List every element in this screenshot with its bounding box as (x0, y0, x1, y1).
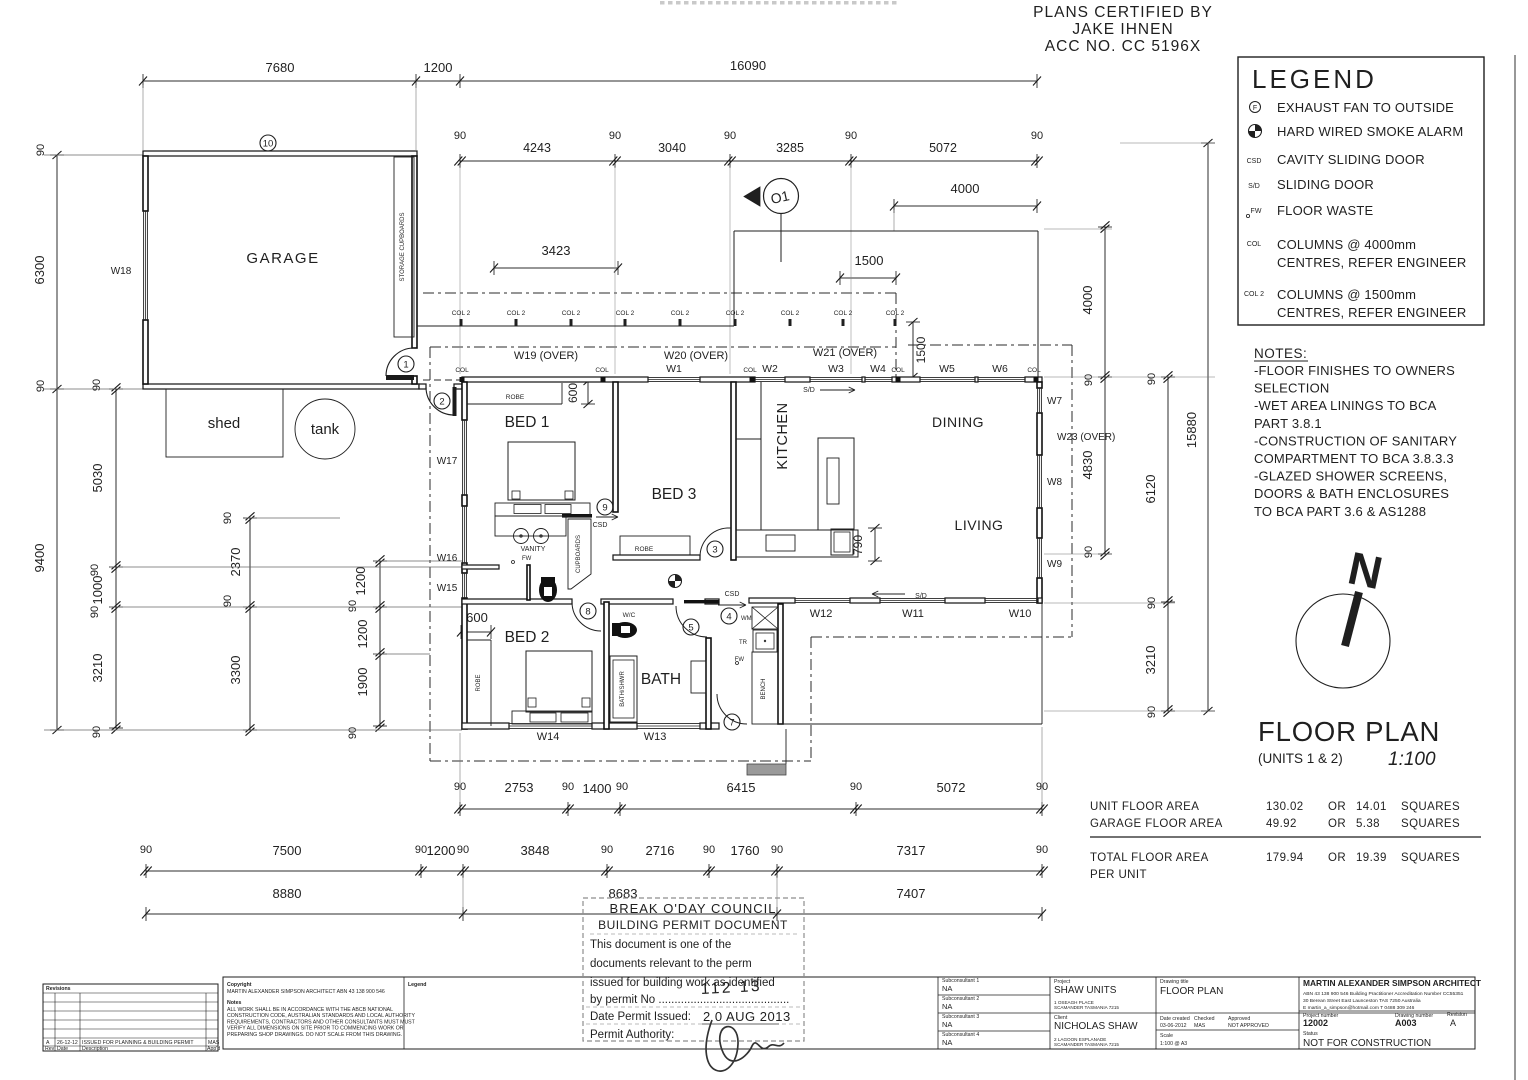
svg-text:W4: W4 (870, 363, 886, 375)
svg-text:7680: 7680 (266, 60, 295, 75)
svg-text:5: 5 (688, 622, 693, 633)
svg-text:CAVITY SLIDING DOOR: CAVITY SLIDING DOOR (1277, 152, 1425, 167)
svg-text:tank: tank (311, 421, 340, 438)
svg-text:OR: OR (1328, 852, 1346, 864)
svg-text:ROBE: ROBE (506, 394, 525, 401)
svg-text:130.02: 130.02 (1266, 801, 1304, 813)
svg-text:W10: W10 (1009, 608, 1032, 620)
svg-text:Checked: Checked (1194, 1016, 1215, 1022)
svg-text:MARTIN ALEXANDER SIMPSON ARCHI: MARTIN ALEXANDER SIMPSON ARCHITECT (1303, 978, 1482, 988)
svg-text:7500: 7500 (273, 843, 302, 858)
svg-text:W11: W11 (902, 608, 924, 620)
svg-text:FLOOR PLAN: FLOOR PLAN (1160, 986, 1223, 997)
svg-text:W23 (OVER): W23 (OVER) (1057, 432, 1115, 443)
svg-text:90: 90 (35, 380, 47, 392)
svg-text:3285: 3285 (776, 141, 804, 155)
svg-text:CSD: CSD (593, 522, 608, 529)
svg-text:COL 2: COL 2 (886, 310, 905, 317)
svg-text:-CONSTRUCTION OF SANITARY: -CONSTRUCTION OF SANITARY (1254, 433, 1457, 448)
svg-text:W14: W14 (537, 731, 560, 743)
svg-text:COL 2: COL 2 (562, 310, 581, 317)
svg-text:REQUIREMENTS, CONTRACTORS AND: REQUIREMENTS, CONTRACTORS AND OTHER CONS… (227, 1019, 416, 1025)
svg-text:COL 2: COL 2 (834, 310, 853, 317)
svg-text:03-06-2012: 03-06-2012 (1160, 1023, 1187, 1029)
svg-text:12002: 12002 (1303, 1018, 1328, 1028)
svg-text:CENTRES, REFER ENGINEER: CENTRES, REFER ENGINEER (1277, 255, 1467, 270)
svg-text:8683: 8683 (609, 886, 638, 901)
svg-text:90: 90 (1031, 130, 1043, 142)
svg-text:documents relevant to the perm: documents relevant to the perm (590, 958, 752, 970)
svg-text:NA: NA (942, 1002, 952, 1011)
svg-text:90: 90 (222, 512, 234, 524)
svg-text:49.92: 49.92 (1266, 818, 1297, 830)
svg-text:90: 90 (562, 781, 574, 793)
svg-text:90: 90 (1083, 374, 1095, 386)
svg-text:W15: W15 (437, 583, 458, 594)
svg-text:PREPARING SHOP DRAWINGS. DO NO: PREPARING SHOP DRAWINGS. DO NOT SCALE FR… (227, 1032, 402, 1038)
svg-text:3210: 3210 (90, 654, 105, 683)
svg-text:90: 90 (1146, 373, 1158, 385)
svg-text:5030: 5030 (90, 464, 105, 493)
svg-text:1200: 1200 (355, 620, 370, 649)
svg-text:Legend: Legend (408, 982, 426, 988)
svg-text:3: 3 (712, 544, 717, 555)
svg-text:Notes: Notes (227, 1000, 242, 1006)
svg-text:90: 90 (91, 726, 103, 738)
svg-text:DOORS & BATH ENCLOSURES: DOORS & BATH ENCLOSURES (1254, 486, 1449, 501)
svg-text:App'd: App'd (207, 1046, 220, 1052)
svg-text:GARAGE FLOOR AREA: GARAGE FLOOR AREA (1090, 818, 1223, 830)
svg-text:1200: 1200 (353, 567, 368, 596)
svg-text:2 0 AUG 2013: 2 0 AUG 2013 (703, 1009, 791, 1024)
svg-text:9400: 9400 (32, 544, 47, 573)
svg-text:FW: FW (522, 556, 532, 562)
svg-text:NA: NA (942, 1020, 952, 1029)
svg-text:6120: 6120 (1143, 475, 1158, 504)
svg-text:8880: 8880 (273, 886, 302, 901)
svg-text:NA: NA (942, 1038, 952, 1047)
svg-text:COL: COL (743, 367, 757, 374)
svg-text:90: 90 (616, 781, 628, 793)
svg-text:UNIT FLOOR AREA: UNIT FLOOR AREA (1090, 801, 1199, 813)
svg-text:W12: W12 (810, 608, 833, 620)
svg-text:BUILDING PERMIT DOCUMENT: BUILDING PERMIT DOCUMENT (598, 918, 788, 932)
svg-text:OR: OR (1328, 801, 1346, 813)
svg-text:LEGEND: LEGEND (1252, 64, 1377, 94)
svg-text:7317: 7317 (897, 843, 926, 858)
svg-text:COLUMNS @ 1500mm: COLUMNS @ 1500mm (1277, 287, 1416, 302)
svg-text:Approved: Approved (1228, 1016, 1250, 1022)
svg-text:W20 (OVER): W20 (OVER) (664, 350, 728, 362)
svg-text:7407: 7407 (897, 886, 926, 901)
svg-text:4000: 4000 (1080, 286, 1095, 315)
svg-text:3423: 3423 (542, 243, 571, 258)
svg-text:90: 90 (1146, 706, 1158, 718)
svg-text:9: 9 (602, 502, 607, 513)
svg-text:OR: OR (1328, 818, 1346, 830)
svg-text:1: 1 (403, 359, 408, 370)
svg-text:2753: 2753 (505, 780, 534, 795)
svg-text:BED 1: BED 1 (505, 414, 550, 431)
svg-text:112 13: 112 13 (700, 978, 762, 998)
svg-text:PLANS CERTIFIED BY: PLANS CERTIFIED BY (1033, 4, 1213, 21)
svg-text:VANITY: VANITY (521, 546, 546, 553)
svg-text:DINING: DINING (932, 414, 984, 430)
svg-text:4830: 4830 (1080, 451, 1095, 480)
svg-text:Date created: Date created (1160, 1016, 1190, 1022)
svg-text:W21 (OVER): W21 (OVER) (813, 347, 877, 359)
svg-text:W6: W6 (992, 363, 1008, 375)
svg-text:BATH: BATH (641, 671, 681, 688)
svg-text:90: 90 (222, 595, 234, 607)
svg-text:90: 90 (601, 844, 613, 856)
svg-text:90: 90 (609, 130, 621, 142)
svg-text:FLOOR WASTE: FLOOR WASTE (1277, 203, 1373, 218)
svg-text:NOTES:: NOTES: (1254, 346, 1307, 361)
svg-text:S/D: S/D (915, 593, 927, 600)
svg-text:COL: COL (595, 367, 609, 374)
svg-text:STORAGE CUPBOARDS: STORAGE CUPBOARDS (400, 213, 406, 282)
svg-text:CENTRES, REFER ENGINEER: CENTRES, REFER ENGINEER (1277, 305, 1467, 320)
svg-text:W16: W16 (437, 553, 458, 564)
svg-text:NA: NA (942, 984, 952, 993)
svg-text:1500: 1500 (914, 336, 928, 363)
svg-text:W19 (OVER): W19 (OVER) (514, 350, 578, 362)
svg-text:90: 90 (1036, 844, 1048, 856)
svg-text:COL: COL (891, 367, 905, 374)
svg-text:ROBE: ROBE (476, 674, 482, 691)
svg-text:90: 90 (771, 844, 783, 856)
svg-text:3040: 3040 (658, 141, 686, 155)
svg-text:90: 90 (703, 844, 715, 856)
svg-text:90: 90 (35, 144, 47, 156)
svg-text:COL: COL (1027, 367, 1041, 374)
svg-text:F: F (1253, 105, 1257, 112)
svg-text:2716: 2716 (646, 843, 675, 858)
svg-text:1000: 1000 (90, 576, 105, 605)
svg-text:CONSTRUCTION CODE, AUSTRALIAN: CONSTRUCTION CODE, AUSTRALIAN STANDARDS … (227, 1013, 415, 1019)
svg-text:14.01: 14.01 (1356, 801, 1387, 813)
svg-text:1760: 1760 (731, 843, 760, 858)
svg-text:5072: 5072 (929, 141, 957, 155)
svg-text:15880: 15880 (1184, 412, 1199, 448)
svg-text:5072: 5072 (937, 780, 966, 795)
svg-text:Rev: Rev (45, 1046, 55, 1052)
svg-text:90: 90 (89, 606, 101, 618)
svg-text:COL 2: COL 2 (1244, 291, 1264, 298)
svg-text:90: 90 (724, 130, 736, 142)
svg-text:ABN 43 138 900 546 Building P: ABN 43 138 900 546 Building Practitioner… (1303, 991, 1464, 997)
svg-text:-GLAZED SHOWER SCREENS,: -GLAZED SHOWER SCREENS, (1254, 469, 1447, 484)
svg-text:90: 90 (850, 781, 862, 793)
svg-text:PART 3.8.1: PART 3.8.1 (1254, 416, 1322, 431)
svg-text:COMPARTMENT TO BCA 3.8.3.3: COMPARTMENT TO BCA 3.8.3.3 (1254, 451, 1454, 466)
svg-text:3210: 3210 (1143, 646, 1158, 675)
svg-text:SCAMANDER TASMANIA 7215: SCAMANDER TASMANIA 7215 (1054, 1005, 1119, 1010)
svg-text:5.38: 5.38 (1356, 818, 1380, 830)
svg-text:A003: A003 (1395, 1018, 1417, 1028)
svg-text:6300: 6300 (32, 256, 47, 285)
svg-text:179.94: 179.94 (1266, 852, 1304, 864)
svg-text:2: 2 (439, 396, 444, 407)
svg-text:Permit Authority:: Permit Authority: (590, 1029, 674, 1041)
svg-text:10: 10 (263, 138, 274, 149)
svg-text:W2: W2 (762, 363, 778, 375)
svg-text:SQUARES: SQUARES (1401, 801, 1460, 813)
svg-text:SQUARES: SQUARES (1401, 818, 1460, 830)
svg-text:90: 90 (347, 727, 359, 739)
svg-text:SQUARES: SQUARES (1401, 852, 1460, 864)
svg-text:Date Permit Issued:: Date Permit Issued: (590, 1011, 691, 1023)
svg-text:90: 90 (347, 600, 359, 612)
svg-text:W/C: W/C (623, 612, 636, 619)
svg-text:BATH/SHWR: BATH/SHWR (620, 671, 626, 707)
svg-text:1:100: 1:100 (1388, 749, 1436, 770)
svg-text:TO BCA PART 3.6 & AS1288: TO BCA PART 3.6 & AS1288 (1254, 504, 1426, 519)
svg-text:SLIDING DOOR: SLIDING DOOR (1277, 177, 1374, 192)
svg-text:600: 600 (566, 383, 580, 403)
svg-text:BED 2: BED 2 (505, 629, 550, 646)
svg-text:COL 2: COL 2 (671, 310, 690, 317)
svg-text:1200: 1200 (427, 843, 456, 858)
svg-text:W5: W5 (939, 363, 955, 375)
svg-text:1900: 1900 (355, 668, 370, 697)
svg-text:COL: COL (455, 367, 469, 374)
svg-text:WM: WM (741, 616, 752, 622)
svg-text:PER UNIT: PER UNIT (1090, 869, 1147, 881)
svg-text:NICHOLAS SHAW: NICHOLAS SHAW (1054, 1021, 1138, 1032)
svg-text:7: 7 (729, 717, 734, 728)
svg-text:BREAK O'DAY COUNCIL: BREAK O'DAY COUNCIL (610, 901, 777, 916)
svg-text:W3: W3 (828, 363, 844, 375)
svg-text:90: 90 (1083, 546, 1095, 558)
svg-text:(UNITS 1 & 2): (UNITS 1 & 2) (1258, 751, 1343, 766)
svg-text:Status: Status (1303, 1031, 1318, 1037)
svg-text:shed: shed (208, 415, 241, 432)
svg-text:KITCHEN: KITCHEN (775, 402, 791, 469)
svg-text:-WET AREA LININGS TO BCA: -WET AREA LININGS TO BCA (1254, 398, 1437, 413)
svg-text:BED 3: BED 3 (652, 486, 697, 503)
svg-text:W18: W18 (111, 266, 132, 277)
svg-text:This document is one of the: This document is one of the (590, 939, 731, 951)
svg-text:W1: W1 (666, 363, 682, 375)
svg-text:S/D: S/D (1248, 183, 1260, 190)
svg-text:4: 4 (726, 611, 731, 622)
svg-text:8: 8 (585, 606, 590, 617)
svg-text:Date: Date (57, 1046, 68, 1052)
svg-text:TOTAL FLOOR AREA: TOTAL FLOOR AREA (1090, 852, 1209, 864)
svg-text:COL 2: COL 2 (781, 310, 800, 317)
svg-text:COLUMNS @ 4000mm: COLUMNS @ 4000mm (1277, 237, 1416, 252)
svg-text:VERIFY ALL DIMENSIONS ON SITE: VERIFY ALL DIMENSIONS ON SITE PRIOR TO C… (227, 1026, 404, 1032)
svg-text:by permit No .................: by permit No ...........................… (590, 994, 789, 1006)
svg-text:COL 2: COL 2 (452, 310, 471, 317)
svg-text:3848: 3848 (521, 843, 550, 858)
svg-text:3300: 3300 (228, 656, 243, 685)
svg-text:90: 90 (457, 844, 469, 856)
svg-text:4243: 4243 (523, 141, 551, 155)
svg-text:SELECTION: SELECTION (1254, 381, 1329, 396)
svg-text:GARAGE: GARAGE (246, 250, 319, 267)
svg-text:CUPBOARDS: CUPBOARDS (576, 535, 582, 573)
svg-text:Scale: Scale (1160, 1033, 1173, 1039)
svg-text:S/D: S/D (803, 387, 815, 394)
svg-text:FLOOR PLAN: FLOOR PLAN (1258, 716, 1440, 747)
svg-text:NOT FOR CONSTRUCTION: NOT FOR CONSTRUCTION (1303, 1038, 1431, 1049)
svg-text:W7: W7 (1047, 396, 1062, 407)
svg-text:W13: W13 (644, 731, 667, 743)
svg-text:ROBE: ROBE (635, 546, 654, 553)
svg-text:W8: W8 (1047, 477, 1062, 488)
svg-text:NOT APPROVED: NOT APPROVED (1228, 1023, 1269, 1029)
svg-text:Drawing title: Drawing title (1160, 979, 1189, 985)
svg-text:1500: 1500 (855, 253, 884, 268)
svg-text:JAKE IHNEN: JAKE IHNEN (1072, 21, 1173, 38)
svg-text:1400: 1400 (583, 781, 612, 796)
svg-text:MARTIN ALEXANDER SIMPSON ARCHI: MARTIN ALEXANDER SIMPSON ARCHITECT ABN 4… (227, 989, 385, 995)
svg-text:1:100 @ A3: 1:100 @ A3 (1160, 1041, 1187, 1047)
svg-text:90: 90 (454, 130, 466, 142)
svg-text:2370: 2370 (228, 548, 243, 577)
svg-text:6415: 6415 (727, 780, 756, 795)
svg-text:-FLOOR FINISHES TO OWNERS: -FLOOR FINISHES TO OWNERS (1254, 363, 1455, 378)
svg-text:90: 90 (89, 564, 101, 576)
svg-text:COL: COL (1247, 241, 1262, 248)
svg-text:BENCH: BENCH (761, 678, 767, 699)
svg-text:Description: Description (82, 1046, 108, 1052)
svg-text:A: A (1450, 1018, 1456, 1028)
svg-text:FW: FW (1251, 208, 1262, 215)
svg-text:MAS: MAS (1194, 1023, 1206, 1029)
svg-text:CSD: CSD (1247, 158, 1262, 165)
svg-text:LIVING: LIVING (955, 517, 1004, 533)
svg-text:E martin_a_simpson@hotmail.com: E martin_a_simpson@hotmail.com T 0488 30… (1303, 1005, 1415, 1011)
svg-text:COL 2: COL 2 (726, 310, 745, 317)
svg-text:Revisions: Revisions (46, 986, 71, 992)
svg-text:19.39: 19.39 (1356, 852, 1387, 864)
svg-text:CSD: CSD (725, 591, 740, 598)
svg-text:W17: W17 (437, 456, 458, 467)
svg-text:COL 2: COL 2 (507, 310, 526, 317)
svg-text:ACC NO. CC 5196X: ACC NO. CC 5196X (1045, 38, 1201, 55)
svg-text:W9: W9 (1047, 559, 1062, 570)
svg-text:COL 2: COL 2 (616, 310, 635, 317)
svg-text:30 Berean Street East Launces: 30 Berean Street East Launceston TAS 725… (1303, 998, 1421, 1004)
svg-text:SHAW UNITS: SHAW UNITS (1054, 985, 1117, 996)
svg-text:90: 90 (140, 844, 152, 856)
svg-text:4000: 4000 (951, 181, 980, 196)
svg-text:16090: 16090 (730, 58, 766, 73)
svg-text:HARD WIRED SMOKE ALARM: HARD WIRED SMOKE ALARM (1277, 124, 1463, 139)
svg-text:90: 90 (415, 844, 427, 856)
svg-text:Copyright: Copyright (227, 982, 252, 988)
svg-text:600: 600 (466, 610, 488, 625)
svg-text:ALL WORK SHALL BE IN ACCORDANC: ALL WORK SHALL BE IN ACCORDANCE WITH THE… (227, 1007, 393, 1013)
svg-text:1200: 1200 (424, 60, 453, 75)
svg-text:TR: TR (739, 640, 748, 646)
svg-text:90: 90 (845, 130, 857, 142)
svg-text:EXHAUST FAN TO OUTSIDE: EXHAUST FAN TO OUTSIDE (1277, 100, 1454, 115)
svg-text:SCAMANDER TASMANIA 7215: SCAMANDER TASMANIA 7215 (1054, 1042, 1119, 1047)
